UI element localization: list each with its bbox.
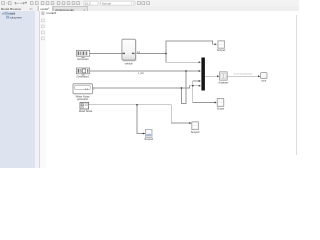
- svg-text:accel measurement: accel measurement: [234, 73, 253, 76]
- svg-text:Scope: Scope: [217, 106, 225, 110]
- svg-text:generator: generator: [77, 97, 88, 101]
- svg-text:Scope3: Scope3: [191, 130, 200, 134]
- svg-text:Road Noise: Road Noise: [79, 109, 93, 113]
- svg-text:Scope1: Scope1: [217, 48, 226, 52]
- svg-text:1: 1: [93, 88, 95, 90]
- svg-text:Scope2: Scope2: [144, 137, 153, 141]
- svg-text:yout: yout: [261, 78, 266, 82]
- svg-text:model: model: [8, 11, 15, 15]
- svg-text:x_dot: x_dot: [138, 72, 144, 75]
- svg-text:Analyzer: Analyzer: [218, 80, 228, 84]
- svg-text:10.0: 10.0: [85, 1, 91, 5]
- svg-text:out: out: [137, 51, 141, 54]
- svg-text:subsystem: subsystem: [10, 15, 22, 19]
- svg-text:vehicle: vehicle: [125, 61, 134, 65]
- svg-text:Normal: Normal: [102, 1, 111, 5]
